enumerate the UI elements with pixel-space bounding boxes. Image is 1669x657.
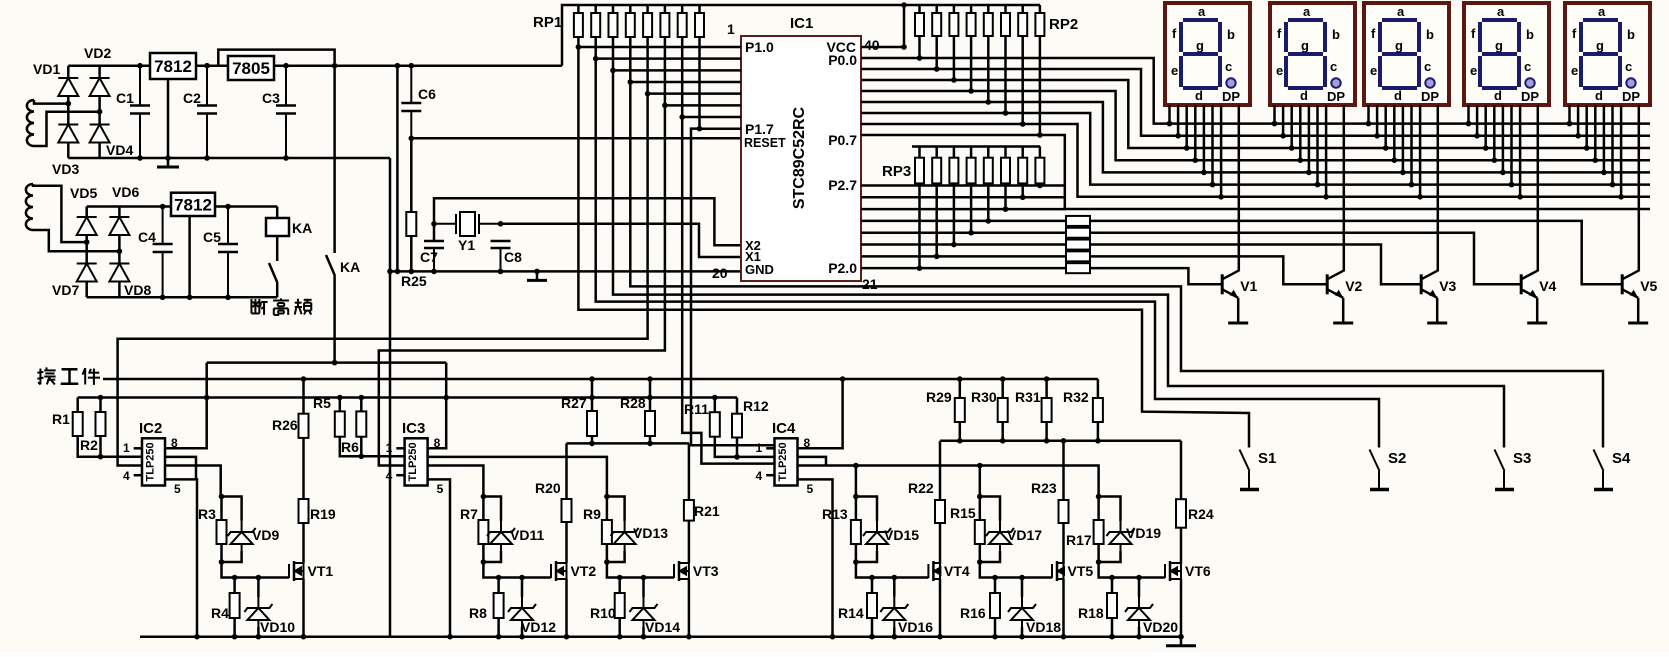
node C7 gnd (431, 269, 437, 275)
svg-text:VD10: VD10 (260, 619, 295, 635)
svg-text:VD15: VD15 (884, 527, 919, 543)
zener diode VD17 (986, 521, 1014, 551)
wire RP2-6 bottom lead (1004, 36, 1007, 113)
node VD20 tap (1136, 575, 1142, 581)
node R32 drain rail tap (1095, 438, 1101, 444)
wire DS2 pin1 (1273, 105, 1276, 124)
wire R25 bottom lead (410, 236, 413, 271)
node cell6 gate top (1096, 494, 1102, 500)
wire RP2-3 top lead (953, 5, 956, 13)
svg-text:7812: 7812 (174, 195, 212, 214)
wire P1.7 to pin (700, 127, 742, 130)
node IC2 pin5 gnd (194, 634, 200, 640)
decimal point DS1 (1226, 78, 1235, 87)
node R8 gnd (496, 634, 502, 640)
wire V1 emitter (1237, 298, 1240, 314)
wire RP3-2 top lead (935, 147, 938, 158)
wire P1.3 net (629, 37, 632, 82)
node DS1 pin7 bus tap (1218, 194, 1224, 200)
node bridge1 mid-left (66, 101, 72, 107)
svg-text:DP: DP (1327, 89, 1345, 104)
wire RP3-6 top lead (1004, 147, 1007, 158)
transistor VT1 (289, 561, 304, 581)
svg-text:1: 1 (727, 21, 735, 37)
svg-text:e: e (1370, 63, 1377, 78)
wire P2.2 digit line (861, 243, 1066, 246)
wire RP1-2 top lead (594, 5, 597, 13)
wire DS3 pin7 (1419, 105, 1422, 197)
resistor RP1-6 (660, 13, 669, 37)
svg-text:e: e (1276, 63, 1283, 78)
resistor base R V5 (1066, 216, 1090, 226)
node VD10 tap (256, 575, 262, 581)
svg-text:STC89C52RC: STC89C52RC (791, 106, 808, 209)
wire R26 to R19 (302, 438, 305, 499)
wire X1 route (501, 224, 742, 257)
wire relay KA branch (276, 207, 279, 219)
node R8 tap (496, 575, 502, 581)
svg-text:R2: R2 (80, 437, 98, 453)
node R27 rail tap b (589, 395, 595, 401)
resistor R14 (867, 593, 877, 618)
node C4 top (160, 204, 166, 210)
wire VT2 source (565, 579, 568, 637)
node DS3 pin2 bus tap (1374, 133, 1380, 139)
wire +12V top rail (68, 64, 562, 67)
node VCC rail tap (901, 2, 907, 8)
node R29 rail tap (957, 376, 963, 382)
node P1.5 junction (662, 103, 668, 109)
ground symbol bottom rail (1166, 637, 1196, 646)
wire DS5 pin5 (1603, 105, 1606, 172)
node cell3 gate bottom (604, 559, 610, 565)
wire cell2 vd branch bottom (483, 551, 501, 562)
wire DS1 pin6 (1211, 105, 1214, 185)
svg-text:40: 40 (864, 37, 880, 53)
wire IC2 pin5 to ground (165, 479, 197, 636)
svg-text:DP: DP (1622, 89, 1640, 104)
capacitor C1 (130, 66, 150, 158)
wire DS1 pin2 (1177, 105, 1180, 136)
wire R14 top lead (871, 578, 874, 594)
wire cell5 R gate lead (979, 497, 982, 521)
wire P1.4 net (646, 37, 649, 94)
ground symbol crystal (527, 271, 547, 280)
svg-text:1: 1 (123, 441, 130, 455)
wire RP3-4 top lead (970, 147, 973, 158)
wire bridge2 left branch (85, 207, 88, 298)
node RP3-2 tap (934, 254, 940, 260)
wire RP1-6 top lead (664, 5, 667, 13)
wire cell2 gate down (483, 544, 551, 578)
svg-text:a: a (1397, 4, 1405, 19)
svg-text:P1.7: P1.7 (745, 121, 774, 137)
wire RP2-1 top lead (918, 5, 921, 13)
node DS3 pin6 bus tap (1409, 182, 1415, 188)
7-segment display DS1 segments (1181, 20, 1220, 88)
svg-text:R31: R31 (1015, 389, 1041, 405)
zener diode VD12 (508, 597, 536, 627)
resistor RP3-6 (1001, 158, 1010, 184)
wire DS2 pin7 (1325, 105, 1328, 197)
wire IC4 pin5 to ground (798, 479, 833, 636)
node DS2 pin4 bus tap (1298, 157, 1304, 163)
node VD18 tap (1019, 575, 1025, 581)
wire P1.7 net (698, 37, 701, 129)
wire RP2-1 bottom lead (918, 36, 921, 58)
svg-text:R25: R25 (401, 273, 427, 289)
svg-text:1: 1 (756, 441, 763, 455)
wire VD18 top lead (1021, 578, 1024, 598)
wire V4 emitter (1536, 298, 1539, 314)
node bridge2 mid-left (84, 239, 90, 245)
wire VT6 source (1180, 579, 1183, 637)
wire VD14 top lead (642, 578, 645, 598)
svg-text:c: c (1424, 59, 1431, 74)
svg-text:C8: C8 (504, 249, 522, 265)
wire R31 top lead (1045, 379, 1048, 398)
node R23 tap (1061, 438, 1067, 444)
decimal point DS3 (1425, 78, 1434, 87)
svg-text:R11: R11 (684, 401, 709, 417)
svg-text:R26: R26 (272, 417, 298, 433)
node gnd sym (534, 269, 540, 275)
node bridge1 mid-right (97, 109, 103, 115)
wire bottom supply rail (78, 396, 737, 399)
wire R8 top lead (497, 578, 500, 594)
wire P1.0 to pin (578, 46, 741, 49)
ground symbol supply1 (157, 158, 179, 167)
svg-text:C7: C7 (420, 249, 438, 265)
svg-text:g: g (1596, 38, 1604, 53)
node DS4 pin1 bus tap (1466, 121, 1472, 127)
node DS5 pin3 bus tap (1584, 145, 1590, 151)
node RP2-7 tap (1020, 121, 1026, 127)
wire cell3 R gate lead (606, 497, 609, 521)
wire P1.6 to pin (682, 116, 741, 119)
diode VD2 (90, 78, 110, 96)
wire cell5 vd branch bottom (980, 551, 1000, 562)
node DS5 pin6 bus tap (1610, 182, 1616, 188)
wire R24 top lead (1180, 441, 1183, 499)
transistor VT2 (551, 561, 567, 581)
resistor R21 (684, 500, 694, 521)
svg-text:5: 5 (437, 482, 444, 496)
capacitor C5 (218, 207, 238, 298)
node R2 rail tap (98, 395, 104, 401)
wire VD18 bottom lead (1021, 627, 1024, 637)
wire switched 12V line (207, 361, 447, 364)
wire RP3-1 bottom lead (918, 183, 921, 268)
node R4 tap (232, 575, 238, 581)
node DS2 pin1 bus tap (1272, 121, 1278, 127)
resistor R6 (356, 411, 366, 436)
node R26 rail tap (301, 376, 307, 382)
wire KA contact bottom (276, 283, 279, 297)
svg-text:R29: R29 (926, 389, 952, 405)
wire cell3 vd branch top (607, 497, 625, 522)
wire R12 bottom lead (736, 438, 739, 457)
svg-text:VD6: VD6 (112, 184, 139, 200)
wire cell6 R gate lead (1097, 497, 1100, 521)
7-segment display DS2 body (1270, 3, 1355, 105)
svg-text:VD17: VD17 (1007, 527, 1042, 543)
svg-text:VD11: VD11 (510, 527, 544, 543)
wire P2.7 stub (861, 184, 1066, 187)
wire IC3 pin1 stub (396, 447, 404, 450)
wire R10 top lead (618, 578, 621, 594)
node C5 bottom (225, 295, 231, 301)
svg-text:VD12: VD12 (521, 619, 556, 635)
wire RP3-3 bottom lead (953, 183, 956, 244)
node DS4 pin7 bus tap (1517, 194, 1523, 200)
wire VT1 source (302, 579, 305, 637)
node RP3-1 tap (917, 265, 923, 271)
wire P1.7 drop to IC4 input b (691, 129, 775, 446)
svg-text:VD13: VD13 (633, 525, 668, 541)
svg-text:R19: R19 (310, 506, 336, 522)
resistor RP1-5 (643, 13, 652, 37)
resistor R30 (998, 398, 1008, 422)
wire P1.4 drop to IC2 input (118, 94, 648, 466)
7-segment display DS1 body (1165, 3, 1250, 105)
node DS3 pin4 bus tap (1392, 157, 1398, 163)
wire RP1-3 top lead (612, 5, 615, 13)
node DS1 pin2 bus tap (1175, 133, 1181, 139)
wire crystal ground rail (390, 270, 741, 273)
svg-text:VD4: VD4 (106, 142, 133, 158)
diode VD4 (90, 125, 110, 143)
svg-text:c: c (1330, 59, 1337, 74)
svg-text:R28: R28 (620, 395, 646, 411)
svg-text:KA: KA (340, 259, 360, 275)
node cell5 gate bottom (977, 559, 983, 565)
svg-text:b: b (1227, 27, 1235, 42)
wire R2 bottom lead (99, 436, 102, 457)
node KA feed tap (332, 360, 338, 366)
resistor RP1-7 (678, 13, 687, 37)
wire P0.3 segment bus (861, 91, 1650, 160)
ground symbol V5 (1628, 314, 1648, 323)
wire R32 top lead (1097, 379, 1100, 398)
node 7812a gnd (165, 155, 171, 161)
wire DS5 pin1 (1568, 105, 1571, 124)
wire P1.1 net (594, 37, 597, 59)
svg-text:d: d (1494, 88, 1502, 103)
transistor V3 (1421, 271, 1437, 298)
svg-text:VD19: VD19 (1126, 525, 1161, 541)
wire R22 to VT4 drain (939, 523, 942, 564)
node R5R6 join (359, 454, 365, 460)
node R14 tap (869, 575, 875, 581)
wire R23 to VT5 drain (1062, 523, 1065, 564)
wire R23 top lead (1062, 441, 1065, 500)
svg-text:R6: R6 (341, 439, 359, 455)
ground symbol V4 (1527, 314, 1547, 323)
wire R31 bottom lead (1045, 422, 1048, 441)
svg-text:R13: R13 (822, 506, 848, 522)
wire cell6 vd branch top (1099, 497, 1121, 522)
node P1.2 junction (610, 68, 616, 74)
wire VT4 source (939, 579, 942, 637)
node RP3-3 tap (951, 242, 957, 248)
wire R1R2 supply drop (76, 398, 79, 413)
resistor R8 (494, 593, 504, 618)
transistor VT6 (1165, 561, 1181, 581)
svg-text:DP: DP (1521, 89, 1539, 104)
wire DS2 common pin to V2 collector (1343, 105, 1346, 272)
wire R25 top lead (410, 138, 413, 212)
resistor RP1-1 (574, 13, 583, 37)
svg-text:R12: R12 (743, 398, 769, 414)
wire R19 to VT1 drain (302, 523, 305, 563)
wire digit line to base V1 (1090, 268, 1222, 284)
wire +12V rail supply2 (87, 205, 278, 208)
svg-text:f: f (1371, 26, 1376, 41)
wire P1.1 to pin (596, 57, 741, 60)
wire DS1 pin1 (1168, 105, 1171, 124)
wire RP3-1 top lead (918, 147, 921, 158)
wire IC4 pin4 stub (766, 474, 774, 477)
svg-text:1: 1 (386, 441, 393, 455)
node DS5 pin2 bus tap (1575, 133, 1581, 139)
resistor base R V3 (1066, 240, 1090, 250)
wire cell4 gate down (856, 544, 929, 578)
wire GND rail supply2 (87, 296, 278, 299)
svg-text:21: 21 (862, 276, 878, 292)
text jie-gong-jian 3 (83, 368, 100, 385)
7-segment display DS3 body (1364, 3, 1449, 105)
transformer T1 winding (27, 100, 34, 146)
wire R30 bottom lead (1001, 422, 1004, 441)
wire digit line to base V3 (1090, 245, 1421, 285)
svg-text:VD1: VD1 (33, 61, 60, 77)
wire IC3 output a (428, 466, 484, 497)
node VD14 gnd (641, 634, 647, 640)
wire IC2 pin7 wire (165, 457, 196, 480)
resistor RP2-1 (915, 13, 924, 36)
wire DS3 pin6 (1410, 105, 1413, 185)
svg-text:R4: R4 (211, 605, 229, 621)
node RP3-5 tap (986, 218, 992, 224)
svg-text:f: f (1172, 26, 1177, 41)
resistor R1 (73, 412, 83, 436)
IC U1 STC89C52RC body (741, 36, 861, 281)
wire GND rail supply1 (68, 157, 390, 160)
wire P0.4 segment bus (861, 102, 1650, 172)
wire cell4 vd branch top (856, 497, 877, 522)
node RP2-2 tap (934, 66, 940, 72)
resistor R23 (1059, 500, 1069, 523)
resistor R20 (562, 499, 572, 522)
svg-text:d: d (1595, 88, 1603, 103)
wire DS3 pin5 (1402, 105, 1405, 172)
svg-text:DP: DP (1222, 89, 1240, 104)
node 7812b gnd (187, 295, 193, 301)
node DS5 pin1 bus tap (1567, 121, 1573, 127)
wire 7812a ground pin (167, 79, 170, 158)
wire VD16 top lead (893, 578, 896, 598)
node R30 drain rail tap (1000, 438, 1006, 444)
svg-text:f: f (1277, 26, 1282, 41)
resistor R10 (615, 593, 625, 618)
wire cell3 gate down (607, 544, 674, 578)
wire P2.3 digit line (861, 231, 1066, 234)
resistor R25 (406, 212, 416, 236)
wire DS2 pin6 (1316, 105, 1319, 185)
wire digit line to base V5 (1090, 221, 1622, 284)
wire RP2-8 top lead (1039, 5, 1042, 13)
zener diode VD11 (487, 521, 515, 551)
wire RP2-8 bottom lead (1039, 36, 1042, 135)
wire IC3 pin8 riser (428, 363, 447, 449)
svg-text:V5: V5 (1640, 278, 1657, 294)
node cell3 gate top (604, 494, 610, 500)
svg-text:V2: V2 (1345, 278, 1362, 294)
resistor RP1-8 (695, 13, 704, 37)
node DS2 pin2 bus tap (1280, 133, 1286, 139)
svg-text:Y1: Y1 (458, 237, 475, 253)
svg-text:5: 5 (807, 482, 814, 496)
node RP2-3 tap (951, 77, 957, 83)
svg-text:DP: DP (1421, 89, 1439, 104)
wire 12V feed down (333, 66, 336, 253)
svg-text:b: b (1332, 27, 1340, 42)
resistor R2 (96, 412, 106, 436)
node DS2 pin6 bus tap (1315, 182, 1321, 188)
wire cell6 gate down (1099, 544, 1165, 578)
optocoupler IC4 body (775, 438, 798, 485)
text duan-gao-pin 1 (251, 299, 267, 315)
resistor RP3-2 (932, 158, 941, 184)
wire VCC rail riser to RP top rail (562, 5, 1040, 66)
svg-text:R22: R22 (908, 480, 934, 496)
resistor RP1-4 (626, 13, 635, 37)
zener diode VD10 (244, 597, 272, 627)
transformer T2 winding (26, 184, 33, 230)
svg-text:R30: R30 (971, 389, 997, 405)
wire P2.5 stub (861, 208, 1066, 211)
wire DS3 pin2 (1376, 105, 1379, 136)
wire RP2-2 bottom lead (935, 36, 938, 69)
svg-text:e: e (1571, 63, 1578, 78)
switch S4 (1594, 450, 1614, 490)
node bypass right (332, 63, 338, 69)
node VT6 source gnd (1178, 634, 1184, 640)
node C5 top (225, 204, 231, 210)
resistor R26 (299, 414, 309, 438)
wire RP1-4 top lead (629, 5, 632, 13)
svg-text:C5: C5 (203, 229, 221, 245)
resistor R4 (230, 593, 240, 618)
wire main ground drop (389, 158, 392, 637)
node R6 rail tap (359, 395, 365, 401)
wire DS3 pin3 (1384, 105, 1387, 148)
wire R21 top lead (688, 443, 691, 500)
wire T2 bottom lead (33, 230, 119, 251)
resistor base R V4 (1066, 228, 1090, 238)
wire RP3-2 bottom lead (935, 183, 938, 256)
svg-text:P2.7: P2.7 (828, 177, 857, 193)
wire DS5 common pin to V5 collector (1638, 105, 1641, 272)
wire RP2-7 bottom lead (1021, 36, 1024, 124)
wire cell5 gate down (980, 544, 1052, 578)
wire P1.5 to pin (665, 104, 741, 107)
wire KA coil to contact (276, 236, 279, 261)
decimal point DS5 (1626, 78, 1635, 87)
node RP2-5 tap (986, 99, 992, 105)
svg-text:GND: GND (745, 262, 774, 277)
